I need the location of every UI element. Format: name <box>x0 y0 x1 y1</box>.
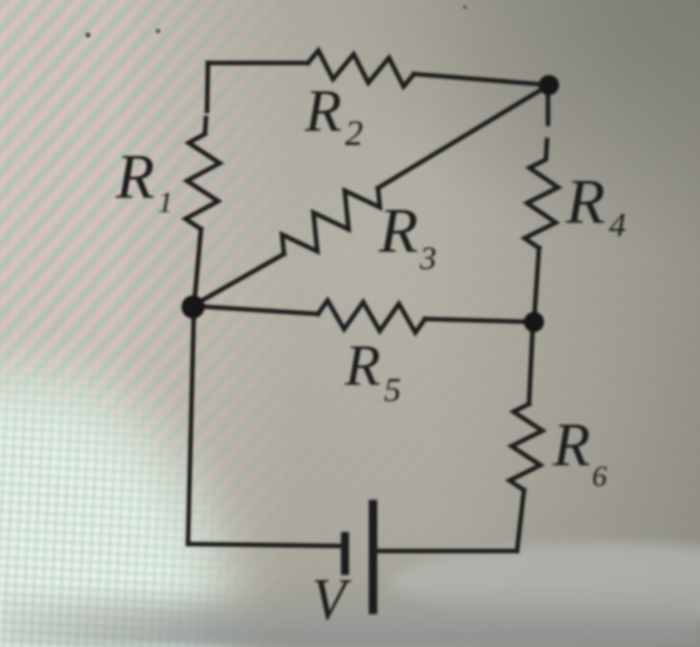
svg-text:R: R <box>115 142 154 212</box>
wire left vertical below node <box>188 306 194 544</box>
wire right vertical dash <box>546 140 547 158</box>
wire right vertical upper <box>546 92 551 124</box>
svg-text:4: 4 <box>609 207 626 244</box>
svg-text:5: 5 <box>384 372 401 409</box>
svg-text:R: R <box>378 195 418 266</box>
wire right vertical lowest <box>517 490 524 551</box>
wire top horizontal right segment <box>414 74 549 85</box>
top-right darker corner <box>330 0 700 260</box>
svg-text:R: R <box>565 166 605 237</box>
bottom gray band <box>0 585 700 647</box>
node left junction <box>182 296 205 319</box>
wire left vertical lower <box>194 229 201 306</box>
speck 1 <box>85 32 90 37</box>
battery V positive plate <box>369 504 378 610</box>
svg-text:R: R <box>552 412 590 479</box>
wire right vertical between R4 and node <box>534 248 539 322</box>
svg-text:2: 2 <box>345 113 363 153</box>
resistor R5 <box>318 300 425 332</box>
wire bottom right segment <box>377 549 517 554</box>
node right-middle junction <box>524 312 544 332</box>
svg-text:3: 3 <box>419 241 437 277</box>
wire diagonal lower segment <box>194 254 284 305</box>
svg-text:1: 1 <box>158 186 173 219</box>
wire middle horizontal right segment <box>425 319 534 322</box>
speck 2 <box>156 29 161 34</box>
bottom-right lighter patch <box>390 543 700 623</box>
resistor R1 <box>185 134 219 229</box>
wire left vertical dash <box>205 118 206 132</box>
wire middle horizontal left segment <box>194 306 318 314</box>
svg-text:R: R <box>344 333 380 398</box>
svg-text:R: R <box>304 78 342 144</box>
wire left vertical upper <box>207 63 208 111</box>
svg-text:6: 6 <box>592 460 607 493</box>
resistor R2 <box>308 51 414 87</box>
right side darkening <box>430 0 700 647</box>
resistor R4 <box>525 160 559 248</box>
svg-text:V: V <box>312 566 352 632</box>
wire top horizontal left segment <box>208 63 308 65</box>
circuit drawing <box>185 51 558 611</box>
battery V negative plate <box>341 536 349 571</box>
wire diagonal upper segment <box>378 85 549 188</box>
resistor R3 <box>282 188 380 254</box>
wire right vertical between R6 and node <box>529 322 533 404</box>
wire bottom left segment <box>188 544 341 546</box>
node top-right junction <box>539 75 559 95</box>
moire stripes left region <box>0 0 340 647</box>
speck 3 <box>463 5 467 9</box>
mint haze bottom-left <box>0 270 320 647</box>
resistor R6 <box>510 404 543 490</box>
mint dotted bottom-left corner <box>0 270 320 647</box>
